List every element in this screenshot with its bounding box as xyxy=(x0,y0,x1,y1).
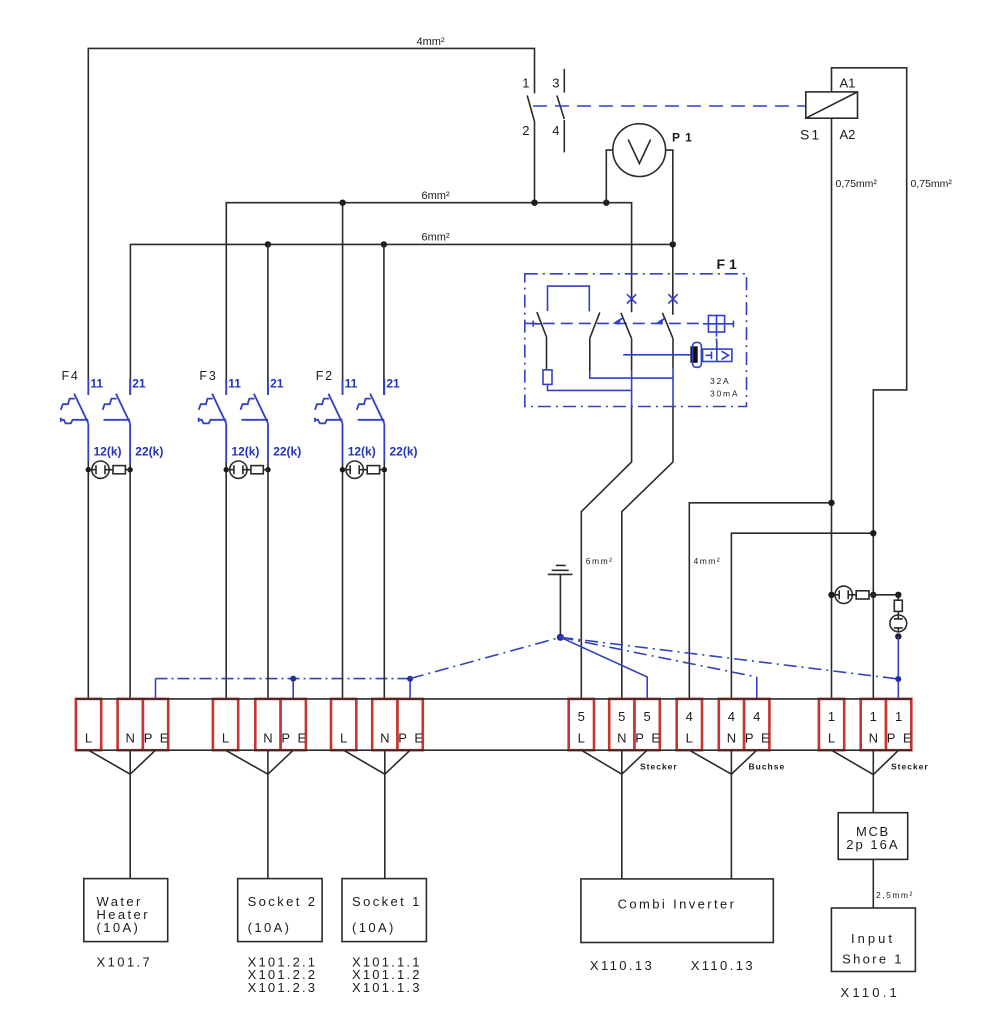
cable socket1 xyxy=(344,750,411,878)
F3 pole 1 blue stubs xyxy=(225,379,227,462)
wire P1 left lead xyxy=(606,150,613,203)
wire switch pole 2 down to 6mm2 bus xyxy=(534,122,536,203)
wire F1 switch 2 to pole 2 xyxy=(590,371,673,378)
terminal 5L xyxy=(569,699,594,750)
terminal 4N xyxy=(719,699,744,750)
F1 link wire inverted U xyxy=(548,286,590,311)
svg-text:X101.1.3: X101.1.3 xyxy=(352,980,422,995)
svg-text:X110.13: X110.13 xyxy=(691,958,755,973)
wire 4mm2 feed from top-left to switch and down to F4 pole 1 xyxy=(88,48,534,395)
svg-text:N: N xyxy=(263,731,272,746)
F3 pole 2 wire down xyxy=(267,462,269,699)
F1 trip relay box xyxy=(703,349,732,361)
svg-text:12(k): 12(k) xyxy=(348,445,376,459)
neon lamp with resistor across L-N xyxy=(828,592,834,598)
F1 test switch terminal tick xyxy=(533,321,541,327)
terminal 1PE xyxy=(886,699,911,750)
svg-text:P E: P E xyxy=(281,731,308,746)
svg-text:11: 11 xyxy=(345,377,358,391)
terminal X101.7 N xyxy=(118,699,143,750)
cable shore input xyxy=(832,750,899,813)
F1 trip arrow pole 2 xyxy=(659,318,666,322)
F1 pole 1 blade xyxy=(621,313,632,371)
F1 pole 2 trip cross xyxy=(668,294,677,303)
terminal socket1 L xyxy=(331,699,356,750)
junction on N line xyxy=(870,530,876,536)
wire F2 N drop xyxy=(383,244,385,395)
terminal 1N xyxy=(861,699,886,750)
F4 pole 1 terminal line with thermal zigzag xyxy=(61,418,89,424)
junction P1 left lead xyxy=(603,200,609,206)
svg-text:X110.13: X110.13 xyxy=(590,958,654,973)
svg-text:L: L xyxy=(340,731,347,746)
svg-text:Socket 2: Socket 2 xyxy=(248,894,318,909)
F3 pole 2 terminal line xyxy=(241,419,268,421)
F4 pole 2 wire down to terminal N xyxy=(129,462,131,699)
svg-text:N: N xyxy=(869,731,878,746)
F2 pole 2 blade xyxy=(370,394,384,424)
svg-text:Stecker: Stecker xyxy=(891,762,929,772)
terminal socket1 N xyxy=(372,699,397,750)
svg-text:A1: A1 xyxy=(840,76,856,91)
junction on A2 line xyxy=(828,500,834,506)
svg-text:(10A): (10A) xyxy=(248,920,292,935)
svg-text:2p 16A: 2p 16A xyxy=(846,837,899,852)
PE drop group X101.7 xyxy=(155,679,157,699)
svg-text:6mm²: 6mm² xyxy=(422,190,450,202)
wire 6mm2 bus upper (F3 L, F2 L tap, switch, P1, to F1 pole 1) xyxy=(226,203,631,395)
svg-text:22(k): 22(k) xyxy=(273,445,301,459)
ground symbol xyxy=(548,565,573,574)
svg-text:N: N xyxy=(126,731,135,746)
F1 trip arrow pole 1 xyxy=(616,318,623,322)
wire F2 L drop xyxy=(342,203,344,395)
box input shore 1 xyxy=(831,908,915,972)
svg-text:22(k): 22(k) xyxy=(390,445,418,459)
terminal 1L xyxy=(819,699,844,750)
svg-text:X110.1: X110.1 xyxy=(841,985,900,1000)
svg-text:L: L xyxy=(85,731,92,746)
svg-text:4: 4 xyxy=(728,709,735,724)
PE wire node to 1PE dash-dot xyxy=(560,637,898,679)
F2 pole 1 trip hook xyxy=(315,399,329,410)
svg-text:(10A): (10A) xyxy=(97,920,141,935)
terminal socket2 N xyxy=(255,699,280,750)
F1 pole 1 blue lower xyxy=(631,371,633,408)
svg-text:Socket 1: Socket 1 xyxy=(352,894,422,909)
svg-text:L: L xyxy=(578,731,585,746)
svg-text:F3: F3 xyxy=(199,369,217,383)
svg-text:L: L xyxy=(686,731,693,746)
svg-text:Combi Inverter: Combi Inverter xyxy=(618,897,737,912)
F2 pole 2 wire down xyxy=(383,462,385,699)
wire F1 solenoid to pole 1 xyxy=(548,384,632,390)
PE drop socket 2 xyxy=(292,679,294,699)
linkage dashed line switch to relay S1 xyxy=(533,105,806,107)
svg-text:N: N xyxy=(617,731,626,746)
F4 pole 1 wire down to terminal L xyxy=(87,462,89,699)
svg-text:21: 21 xyxy=(132,377,146,391)
PE bus to socket terminals dash-dot xyxy=(156,678,410,680)
wire MCB to shore input xyxy=(872,859,874,908)
F4 pole 1 blue stubs xyxy=(87,379,89,462)
junction F3 N tap xyxy=(265,241,271,247)
F4 pole 2 trip hook xyxy=(103,399,117,410)
F2 neon lamp and resistor xyxy=(340,467,345,472)
svg-text:Buchse: Buchse xyxy=(749,762,786,772)
svg-text:(10A): (10A) xyxy=(352,920,396,935)
PE drop socket 1 xyxy=(409,679,411,699)
junction P1 right lead xyxy=(670,241,676,247)
wire to PE pilot lamp xyxy=(873,594,898,596)
F3 pole 2 blade xyxy=(254,394,268,424)
PE bus rise to node xyxy=(410,637,561,678)
F1 linkage dashed line xyxy=(525,322,699,324)
terminal socket1 PE xyxy=(398,699,423,750)
svg-text:0,75mm²: 0,75mm² xyxy=(911,178,953,190)
svg-text:P E: P E xyxy=(398,731,425,746)
wire F3 N drop xyxy=(267,244,269,395)
terminal rail upper xyxy=(76,698,912,700)
terminal socket2 L xyxy=(213,699,238,750)
terminal 4PE xyxy=(744,699,769,750)
svg-text:4: 4 xyxy=(686,709,693,724)
F4 neon lamp and resistor xyxy=(86,467,91,472)
svg-text:5: 5 xyxy=(618,709,625,724)
wire 6mm2 bus lower (F4 N, F3 N, F2 N taps, to F1 pole 2) xyxy=(130,244,672,395)
wire F1 CT primary xyxy=(623,354,690,356)
svg-text:F2: F2 xyxy=(316,369,334,383)
svg-text:L: L xyxy=(828,731,835,746)
F1 switch 2 blade xyxy=(590,312,600,371)
voltmeter P1 xyxy=(613,124,666,177)
svg-text:A2: A2 xyxy=(840,127,856,142)
F1 pole 1 trip cross xyxy=(627,294,636,303)
svg-text:12(k): 12(k) xyxy=(94,445,122,459)
box combi inverter xyxy=(581,879,773,943)
junction F2 L tap xyxy=(339,200,345,206)
svg-text:Stecker: Stecker xyxy=(640,762,678,772)
F2 pole 1 terminal line with thermal zigzag xyxy=(315,418,343,424)
svg-text:X101.2.3: X101.2.3 xyxy=(248,980,318,995)
svg-text:6mm²: 6mm² xyxy=(422,232,450,244)
terminal 4L xyxy=(677,699,702,750)
svg-text:P 1: P 1 xyxy=(672,131,693,145)
F2 pole 1 blade xyxy=(328,394,342,424)
breaker F2 xyxy=(315,369,418,699)
wire ground to PE node xyxy=(559,575,561,637)
svg-text:21: 21 xyxy=(386,377,400,391)
svg-text:Shore 1: Shore 1 xyxy=(842,952,904,967)
resistor vertical xyxy=(894,600,902,611)
cable socket2 xyxy=(226,750,294,878)
F2 pole 2 trip hook xyxy=(357,399,371,410)
svg-text:1: 1 xyxy=(828,709,835,724)
svg-text:1: 1 xyxy=(895,709,902,724)
F1 CT pill outline xyxy=(693,342,702,367)
svg-text:32A: 32A xyxy=(710,376,731,386)
F3 neon lamp and resistor xyxy=(224,467,229,472)
svg-text:N: N xyxy=(727,731,736,746)
svg-text:11: 11 xyxy=(90,377,103,391)
svg-text:11: 11 xyxy=(228,377,241,391)
terminal rail lower xyxy=(76,749,912,751)
F2 pole 1 wire down xyxy=(342,462,344,699)
F1 pole 2 blade xyxy=(662,313,673,368)
svg-text:21: 21 xyxy=(270,377,284,391)
box MCB xyxy=(838,813,908,860)
svg-text:2: 2 xyxy=(522,123,529,138)
wire S1 A1 up and right loop down to terminal 1N xyxy=(832,68,907,699)
svg-text:2,5mm²: 2,5mm² xyxy=(876,890,914,900)
svg-text:0,75mm²: 0,75mm² xyxy=(836,178,878,190)
terminal X101.7 PE xyxy=(143,699,168,750)
F3 pole 2 trip hook xyxy=(241,399,255,410)
PE wire node to 4PE dash-dot xyxy=(560,637,756,677)
switch pole 1-2 blade xyxy=(527,96,534,122)
switch pole 3-4 xyxy=(557,69,564,152)
F3 pole 1 wire down xyxy=(225,462,227,699)
junction F2 N tap xyxy=(381,241,387,247)
relay coil S1 xyxy=(806,92,858,118)
terminal 5N xyxy=(609,699,634,750)
svg-text:4: 4 xyxy=(552,123,559,138)
neon lamp vertical xyxy=(890,615,907,632)
svg-text:5: 5 xyxy=(578,709,585,724)
svg-text:L: L xyxy=(222,731,229,746)
svg-text:F 1: F 1 xyxy=(717,256,737,272)
svg-text:4mm²: 4mm² xyxy=(694,556,722,566)
F1 test button xyxy=(708,316,724,333)
svg-text:P E: P E xyxy=(144,731,171,746)
box socket 1 xyxy=(342,879,426,942)
wire S1 A2 down to terminal 1L xyxy=(831,118,833,699)
F2 pole 1 blue stubs xyxy=(342,379,344,462)
wire P1 right lead xyxy=(666,150,673,244)
svg-text:Input: Input xyxy=(851,931,895,946)
svg-text:5: 5 xyxy=(643,709,650,724)
terminal 5PE xyxy=(635,699,660,750)
breaker F4 xyxy=(61,369,164,699)
F3 pole 1 terminal line with thermal zigzag xyxy=(199,418,227,424)
F4 pole 1 blade xyxy=(74,394,88,424)
F1 test switch blade xyxy=(537,312,547,370)
wire F1 pole 1 output to terminal 5L xyxy=(581,407,631,699)
breaker F3 xyxy=(199,369,302,699)
F4 pole 1 trip hook xyxy=(61,399,75,410)
F1 solenoid coil xyxy=(543,370,552,385)
F4 pole 2 blue stubs xyxy=(129,379,131,462)
F1 current transformer core xyxy=(690,346,697,363)
cable X101.7 to water heater xyxy=(89,750,156,878)
F1 trip relay symbols xyxy=(706,342,729,362)
F4 pole 2 blade xyxy=(116,394,130,424)
RCD F1 enclosure dash-dot xyxy=(525,274,747,407)
PE wire node to 5PE xyxy=(560,637,647,699)
PE node xyxy=(557,634,564,641)
terminal socket2 PE xyxy=(281,699,306,750)
cable inverter input xyxy=(581,750,647,879)
svg-text:S1: S1 xyxy=(800,127,821,143)
F3 pole 1 blade xyxy=(212,394,226,424)
wire 4L from A2 line xyxy=(689,503,831,699)
svg-text:1: 1 xyxy=(522,76,529,91)
F2 pole 2 terminal line xyxy=(358,419,385,421)
svg-text:3: 3 xyxy=(552,76,559,91)
cable inverter output xyxy=(689,750,756,879)
svg-text:P E: P E xyxy=(745,731,772,746)
svg-text:30mA: 30mA xyxy=(710,389,739,399)
svg-text:P E: P E xyxy=(887,731,914,746)
svg-text:12(k): 12(k) xyxy=(231,445,259,459)
F1 test button to relay dashed xyxy=(716,339,718,349)
F2 pole 2 blue stubs xyxy=(383,379,385,462)
svg-text:6mm²: 6mm² xyxy=(586,556,614,566)
wire 4N from N line xyxy=(731,533,873,699)
wire F1 pole 2 output to terminal 5N xyxy=(622,407,673,699)
svg-text:1: 1 xyxy=(870,709,877,724)
terminal X101.7 L xyxy=(76,699,101,750)
svg-text:4: 4 xyxy=(753,709,760,724)
svg-text:22(k): 22(k) xyxy=(135,445,163,459)
F4 pole 2 terminal line xyxy=(104,419,131,421)
F3 pole 2 blue stubs xyxy=(267,379,269,462)
F3 pole 1 trip hook xyxy=(199,399,213,410)
svg-text:4mm²: 4mm² xyxy=(417,36,445,48)
svg-text:F4: F4 xyxy=(62,369,80,383)
box socket 2 xyxy=(238,879,322,942)
svg-text:P E: P E xyxy=(635,731,662,746)
box water heater xyxy=(84,879,168,942)
F1 pole 2 blue lower xyxy=(672,368,674,407)
wire lamp to 1PE terminal blue xyxy=(897,637,899,699)
svg-text:X101.7: X101.7 xyxy=(97,955,153,970)
junction switch drop xyxy=(531,200,537,206)
svg-text:N: N xyxy=(380,731,389,746)
